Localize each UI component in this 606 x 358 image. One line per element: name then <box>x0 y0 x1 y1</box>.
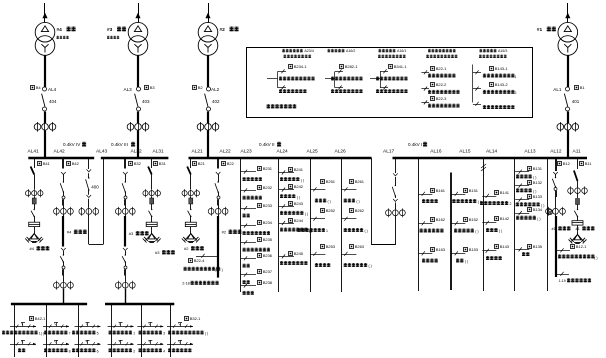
svg-text:( ): ( ) <box>594 256 597 260</box>
svg-text:401: 401 <box>572 99 580 104</box>
breaker B237 <box>241 269 273 284</box>
svg-text:B243: B243 <box>294 201 304 206</box>
svg-text:AL24: AL24 <box>277 149 289 155</box>
node label AL43 <box>96 149 108 155</box>
breaker B152 <box>451 217 479 234</box>
breaker B163 <box>418 247 446 262</box>
bus 0.4kV IV <box>28 142 94 158</box>
svg-text:B238: B238 <box>263 280 273 285</box>
panel column border x=241 <box>240 158 242 292</box>
svg-text:1: 1 <box>515 75 517 79</box>
bus 0.4kV III <box>101 142 169 158</box>
svg-text:AL42: AL42 <box>54 149 66 155</box>
feeder tag B32 <box>129 161 142 166</box>
busway lower breaker to bottom bus <box>115 248 135 304</box>
svg-text:): ) <box>222 268 223 272</box>
node label AL15 <box>459 149 471 155</box>
breaker B263 <box>341 244 371 268</box>
busway feeder AL22 <box>208 158 241 277</box>
legend note text <box>267 104 297 108</box>
busway feeder at x=125.3 <box>115 158 135 216</box>
breaker B251 <box>310 179 335 204</box>
svg-text:2: 2 <box>515 91 517 95</box>
svg-text:A23/4: A23/4 <box>304 49 313 53</box>
svg-text:B134: B134 <box>533 207 543 212</box>
svg-text:B244: B244 <box>294 218 304 223</box>
svg-text:#2: #2 <box>184 246 189 251</box>
breaker B253 <box>310 244 335 267</box>
svg-text:B131: B131 <box>533 166 543 171</box>
node label AL42 <box>54 149 66 155</box>
svg-text:B42: B42 <box>72 161 80 166</box>
svg-text:B143-2: B143-2 <box>495 82 509 87</box>
breaker 403 of #3 主变 <box>124 85 156 111</box>
panel column border AL15 (bold, isolated) <box>450 173 452 291</box>
svg-text:B4: B4 <box>36 85 42 90</box>
breaker B252 <box>297 208 335 233</box>
svg-text:AL2: AL2 <box>211 87 220 92</box>
svg-text:B261: B261 <box>355 179 365 184</box>
svg-text:B152: B152 <box>469 217 479 222</box>
svg-text:1-19: 1-19 <box>559 279 566 283</box>
breaker B235 <box>241 237 273 251</box>
AC feeder at x=14 <box>2 304 44 357</box>
svg-text:AL13: AL13 <box>524 149 536 155</box>
label #4 主变 <box>57 27 76 39</box>
svg-text:AL31: AL31 <box>153 149 165 155</box>
svg-text:0.4kV III: 0.4kV III <box>111 142 128 147</box>
CT set of #4 主变 <box>34 122 56 132</box>
legend col4 incoming #2#3 <box>421 49 459 108</box>
AC feeder at x=171 <box>167 304 208 357</box>
svg-text:( ): ( ) <box>305 212 308 216</box>
transformer #3 主变 <box>128 3 148 158</box>
svg-text:A16/2: A16/2 <box>346 49 355 53</box>
feeder tag B21 <box>193 161 206 166</box>
breaker B134 <box>515 207 543 221</box>
svg-text:AL15: AL15 <box>459 149 471 155</box>
breaker B233 <box>241 203 273 217</box>
CT set of #2 主变 <box>197 122 219 132</box>
svg-text:( ): ( ) <box>475 230 478 234</box>
feeder tag B12 <box>558 161 571 166</box>
svg-text:AL23: AL23 <box>241 149 253 155</box>
bus tie AL17 (II-I) <box>372 158 406 245</box>
label #1 主变 <box>537 27 556 34</box>
svg-text:( ): ( ) <box>356 200 359 204</box>
node label AL23 <box>241 149 253 155</box>
svg-text:0.4kV IV: 0.4kV IV <box>63 142 81 147</box>
svg-text:4: 4 <box>163 350 165 354</box>
svg-text:7: 7 <box>69 332 71 336</box>
svg-text:B253: B253 <box>326 244 336 249</box>
breaker B143 <box>482 244 510 260</box>
svg-text:B133: B133 <box>533 194 543 199</box>
svg-text:#3: #3 <box>129 231 134 236</box>
svg-text:A11: A11 <box>573 149 582 155</box>
svg-text:B32: B32 <box>134 161 142 166</box>
label #2 主变 <box>220 27 239 34</box>
svg-text:#1: #1 <box>552 227 556 231</box>
svg-text:( ): ( ) <box>328 200 331 204</box>
legend box <box>247 48 533 118</box>
svg-text:B237: B237 <box>263 269 273 274</box>
node label AL22 <box>220 149 232 155</box>
svg-text:B234: B234 <box>263 220 273 225</box>
busway AL22 destination text <box>182 281 219 286</box>
label #4 capacitor <box>30 246 50 251</box>
capacitor feeder at x=151.7 <box>143 158 161 242</box>
svg-text:B282-1: B282-1 <box>345 64 359 69</box>
svg-text:#3: #3 <box>155 250 160 255</box>
legend col5 incoming A16/3 <box>473 49 517 109</box>
busway feeder at x=63.4 <box>54 158 74 216</box>
CT set of #1 主变 <box>557 122 579 132</box>
breaker B153 <box>451 247 479 264</box>
bus tie 400 (IV-III) <box>79 158 104 244</box>
bus 0.4kV I <box>393 142 588 158</box>
feeder tag B42 <box>67 161 80 166</box>
svg-text:( ): ( ) <box>533 190 536 194</box>
label #3 capacitor <box>155 250 175 255</box>
svg-text:404: 404 <box>49 99 57 104</box>
node label AL31 <box>153 149 165 155</box>
svg-text:B163: B163 <box>436 247 446 252</box>
breaker B131 <box>515 166 543 179</box>
node label AL16 <box>430 149 442 155</box>
tag B32-1 <box>185 316 202 321</box>
svg-text:#2: #2 <box>220 27 226 33</box>
busway riser #4 <box>63 216 87 247</box>
AC feeder at x=111.6 <box>108 304 136 357</box>
legend col2 incoming A16/2 <box>325 49 363 93</box>
svg-text:B232: B232 <box>263 185 273 190</box>
legend col1 incoming A23/4 <box>267 49 315 93</box>
breaker B262 <box>341 208 367 233</box>
svg-text:B12-1: B12-1 <box>576 244 587 249</box>
svg-text:B241: B241 <box>294 167 304 172</box>
svg-text:B231: B231 <box>263 166 273 171</box>
svg-text:AL41: AL41 <box>28 149 40 155</box>
panel column border x=279 <box>278 158 280 292</box>
transformer #2 主变 <box>198 3 218 158</box>
breaker 401 of #1 主变 <box>553 85 585 111</box>
legend col3 incoming A16/1 <box>370 49 408 93</box>
svg-text:B22-2: B22-2 <box>436 82 447 87</box>
AC feeder at x=141.3 <box>137 304 165 357</box>
svg-text:B21: B21 <box>198 161 206 166</box>
feeder tag B41 <box>38 161 51 166</box>
capacitor feeder at x=34.2 <box>25 158 43 242</box>
svg-text:AL17: AL17 <box>383 149 395 155</box>
breaker B261 <box>341 179 364 204</box>
breaker B141 <box>480 190 512 206</box>
node label AL32 <box>131 149 143 155</box>
svg-text:B251: B251 <box>326 179 336 184</box>
breaker B162 <box>418 217 446 232</box>
node label AL25 <box>307 149 319 155</box>
breaker B161 <box>418 188 446 203</box>
svg-text:402: 402 <box>212 99 220 104</box>
svg-text:2: 2 <box>510 202 512 206</box>
busway lower breaker to bottom bus <box>54 248 74 304</box>
capacitor feeder at x=190.8 <box>182 158 200 242</box>
bottom bus right <box>105 303 174 306</box>
tap B22-4 on busway AL22 <box>184 254 223 272</box>
svg-text:AL12: AL12 <box>550 149 562 155</box>
breaker B242 <box>279 184 304 199</box>
svg-text:( ): ( ) <box>537 217 540 221</box>
svg-text:B162: B162 <box>436 217 446 222</box>
svg-text:AL21: AL21 <box>192 149 204 155</box>
svg-text:#4: #4 <box>30 246 35 251</box>
svg-text:A16/3: A16/3 <box>498 49 507 53</box>
tap B12-1 on busway AL12 <box>555 244 598 260</box>
svg-text:B245: B245 <box>294 251 304 256</box>
svg-text:B41: B41 <box>43 161 51 166</box>
node label AL14 <box>486 149 498 155</box>
svg-text:B235: B235 <box>263 237 273 242</box>
svg-text:B236: B236 <box>263 253 273 258</box>
svg-text:#4: #4 <box>67 230 72 235</box>
svg-text:#2: #2 <box>222 230 227 235</box>
svg-text:5: 5 <box>97 332 99 336</box>
svg-text:1( ): 1( ) <box>39 332 44 336</box>
svg-text:AL25: AL25 <box>307 149 319 155</box>
svg-text:( ): ( ) <box>533 176 536 180</box>
svg-text:B151: B151 <box>469 188 479 193</box>
svg-text:B262: B262 <box>355 208 365 213</box>
svg-text:B242: B242 <box>294 184 304 189</box>
svg-text:B234-1: B234-1 <box>294 64 308 69</box>
panel column border AL13 <box>514 158 516 291</box>
node label AL21 <box>192 149 204 155</box>
svg-text:( ): ( ) <box>499 229 502 233</box>
svg-text:A16/1: A16/1 <box>397 49 406 53</box>
svg-text:B252: B252 <box>326 208 336 213</box>
node label AL41 <box>28 149 40 155</box>
svg-text:B153: B153 <box>469 247 479 252</box>
panel column border AL14 with disconnect mark <box>481 158 486 291</box>
transformer #1 主变 <box>558 3 578 158</box>
svg-text:B141: B141 <box>500 190 510 195</box>
breaker B244 <box>279 218 312 233</box>
label #3 主变 <box>107 27 126 39</box>
svg-text:B263: B263 <box>355 244 365 249</box>
breaker B231 <box>241 166 273 181</box>
AC feeder at x=78.5 <box>72 304 101 357</box>
svg-text:( ): ( ) <box>205 332 208 336</box>
breaker B142 <box>482 216 510 233</box>
node label AL26 <box>335 149 347 155</box>
svg-text:#3: #3 <box>107 27 113 33</box>
svg-text:B233: B233 <box>263 203 273 208</box>
svg-text:AL32: AL32 <box>131 149 143 155</box>
svg-text:B12: B12 <box>563 161 571 166</box>
svg-text:AL26: AL26 <box>335 149 347 155</box>
breaker B243 <box>279 201 308 216</box>
feeder tag B22 <box>222 161 235 166</box>
svg-text:B341-1: B341-1 <box>394 64 408 69</box>
svg-text:B22-4: B22-4 <box>194 258 205 263</box>
svg-text:( ): ( ) <box>297 195 300 199</box>
breaker B236 <box>241 253 273 267</box>
svg-text:2: 2 <box>133 350 135 354</box>
panel column border AL16 <box>418 158 420 291</box>
breaker B232 <box>241 185 273 199</box>
bus 0.4kV II <box>189 142 372 158</box>
svg-text:( ): ( ) <box>301 178 304 182</box>
breaker B245 <box>279 251 308 265</box>
svg-text:B143-1: B143-1 <box>495 66 509 71</box>
labels #1号线槽 #1电容器 <box>552 226 595 231</box>
breaker B132 <box>515 180 543 193</box>
svg-text:B22-3: B22-3 <box>436 96 447 101</box>
breaker B133 <box>515 194 544 207</box>
node label AL12 <box>550 149 562 155</box>
breaker B151 <box>451 188 481 204</box>
svg-text:2-18: 2-18 <box>182 282 190 286</box>
svg-text:1: 1 <box>133 332 135 336</box>
svg-text:B22: B22 <box>227 161 235 166</box>
panel column border x=310.4 <box>310 158 312 292</box>
breaker B238 <box>241 280 273 295</box>
svg-text:AL3: AL3 <box>124 87 133 92</box>
svg-text:B135: B135 <box>533 244 543 249</box>
busway riser #3 <box>125 216 149 247</box>
panel column border AL12 <box>547 158 549 291</box>
svg-text:B22-1: B22-1 <box>436 66 447 71</box>
svg-text:0.4kV I: 0.4kV I <box>408 142 422 147</box>
svg-text:AL1: AL1 <box>553 87 562 92</box>
svg-text:403: 403 <box>142 99 150 104</box>
svg-text:#1: #1 <box>537 27 543 33</box>
svg-text:B31: B31 <box>159 161 167 166</box>
node label AL13 <box>524 149 536 155</box>
motor symbol at AL13 row3 <box>547 209 552 214</box>
svg-text:B42-1: B42-1 <box>35 316 46 321</box>
bottom bus left <box>11 303 87 306</box>
transformer #4 主变 <box>35 3 55 158</box>
panel column border x=341.4 <box>341 158 343 292</box>
svg-text:3: 3 <box>163 332 165 336</box>
svg-text:B142: B142 <box>500 216 510 221</box>
svg-text:B2: B2 <box>198 85 204 90</box>
CT set of #3 主变 <box>127 122 149 132</box>
svg-text:( ): ( ) <box>364 229 367 233</box>
AC feeder at x=47 <box>43 304 71 357</box>
svg-text:B161: B161 <box>436 188 446 193</box>
node label AL17 <box>383 149 395 155</box>
feeder tag B11 <box>580 161 593 166</box>
svg-text:B132: B132 <box>533 180 543 185</box>
svg-text:AL22: AL22 <box>220 149 232 155</box>
svg-text:B11: B11 <box>585 161 593 166</box>
busway AL12 destination <box>555 272 591 283</box>
svg-text:400: 400 <box>91 185 99 190</box>
svg-text:#4: #4 <box>57 27 63 33</box>
svg-text:B143: B143 <box>500 244 510 249</box>
svg-text:8: 8 <box>69 350 71 354</box>
svg-text:0.4kV II: 0.4kV II <box>259 142 275 147</box>
breaker B135 <box>515 244 543 256</box>
svg-text:AL16: AL16 <box>430 149 442 155</box>
svg-text:AL14: AL14 <box>486 149 498 155</box>
tag B42-1 <box>30 316 47 321</box>
svg-text:B1: B1 <box>580 85 586 90</box>
breaker B241 <box>279 167 304 182</box>
breaker 402 of #2 主变 <box>193 85 221 111</box>
svg-text:AL4: AL4 <box>48 87 57 92</box>
capacitor feeder AL11 <box>568 158 588 243</box>
svg-text:B32-1: B32-1 <box>190 316 201 321</box>
svg-text:( ): ( ) <box>369 264 372 268</box>
feeder tag B31 <box>154 161 167 166</box>
breaker 404 of #4 主变 <box>31 85 58 111</box>
svg-text:B3: B3 <box>150 85 156 90</box>
svg-text:1: 1 <box>326 229 328 233</box>
svg-text:( ): ( ) <box>465 260 468 264</box>
label #2 capacitor <box>184 246 204 251</box>
svg-text:AL43: AL43 <box>96 149 108 155</box>
busway feeder AL12 <box>546 158 566 277</box>
svg-text:6: 6 <box>97 350 99 354</box>
breaker B234 <box>241 220 273 235</box>
node label AL24 <box>277 149 289 155</box>
node label A11 <box>573 149 582 155</box>
